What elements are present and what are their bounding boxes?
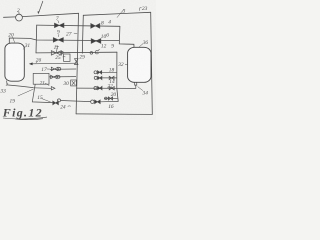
check valve 10 <box>91 39 101 44</box>
label 2 leader <box>18 12 20 14</box>
label 9 leader <box>58 34 60 37</box>
label 23 hook <box>140 8 142 11</box>
left tank outlet <box>7 81 34 88</box>
solenoid 26 arrow line <box>32 62 77 65</box>
valve 11 <box>53 38 63 42</box>
wire to receiver vertical <box>100 100 118 102</box>
label 15 leader <box>42 99 51 102</box>
wire second header <box>82 15 83 53</box>
wire box to bottom corner <box>32 84 52 102</box>
wire row3 <box>36 51 117 54</box>
wire vertical left header <box>76 13 78 114</box>
receiver tank 36 right <box>128 47 151 82</box>
fitting circle row3 right <box>90 52 93 55</box>
hand expansion valve 25 <box>51 51 61 55</box>
wire main discharge line 1 <box>4 13 79 17</box>
label 26 leader <box>36 62 37 64</box>
wire bottom middle <box>61 101 91 102</box>
service row 14 <box>97 77 117 79</box>
wire top line 23 <box>83 12 150 15</box>
suction line from tank 36 <box>76 85 136 88</box>
box outlet row 21 <box>49 76 76 78</box>
wire receiver vertical <box>117 52 118 101</box>
label 25 tilde <box>63 56 66 58</box>
label 24 tilde <box>68 105 71 107</box>
wire left column <box>35 25 38 53</box>
label 20 leader <box>13 37 15 43</box>
accumulator tank 31 left <box>5 43 24 81</box>
label 31 leader <box>23 47 26 50</box>
check valve 8 <box>91 24 100 29</box>
label 33 leader <box>6 83 8 86</box>
label 21 tail <box>45 83 49 86</box>
label 36 leader <box>139 44 143 47</box>
fitting circle bottom left <box>58 99 61 102</box>
paper noise <box>0 0 1 1</box>
wire right riser 23 <box>151 12 153 114</box>
tank 36 outlet nipple <box>135 82 137 85</box>
valve 17 row <box>50 68 76 70</box>
flow arrow under box <box>33 87 55 90</box>
heat exchanger box 28 <box>33 73 49 84</box>
wire elbow to tank 36 <box>119 26 134 47</box>
service row 18 <box>97 71 117 73</box>
figure caption Fig.12 <box>2 105 47 119</box>
expansion device 30 <box>71 80 77 86</box>
label 19 leader <box>18 89 34 96</box>
fitting circle <box>61 51 64 54</box>
wire row2 with tank feed <box>9 38 119 44</box>
valve hook row3 <box>95 49 99 54</box>
label 17 dash <box>47 68 50 70</box>
label 3 leader <box>117 9 124 17</box>
dryer box 13 <box>64 54 70 61</box>
valve 7 <box>55 23 64 27</box>
label 7 leader <box>58 20 59 23</box>
label 32 leader <box>125 63 127 66</box>
compressor 2 <box>16 14 23 21</box>
wire row1 <box>37 25 120 26</box>
service row 20 <box>104 97 117 99</box>
valve 15 <box>53 101 59 105</box>
valve dark bottom <box>95 100 101 104</box>
wire bottom run <box>76 113 152 116</box>
fitting circle 24 line <box>91 100 94 103</box>
label 34 leader <box>138 87 143 91</box>
valve 29 on vertical <box>75 59 79 65</box>
node 1 leader arrow <box>39 1 43 12</box>
label 27 dash <box>74 32 77 34</box>
